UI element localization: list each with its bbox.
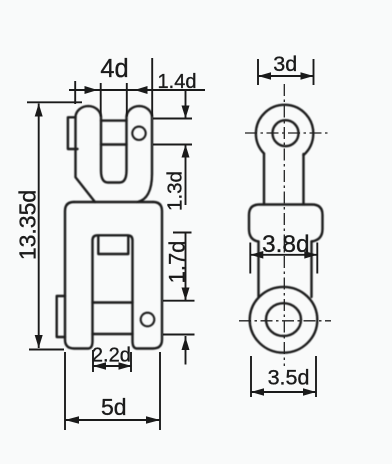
upper slot line B: [101, 143, 127, 145]
upper clevis body outline: [76, 106, 153, 202]
3.8d right arrow: [304, 251, 317, 259]
svg-text:13.35d: 13.35d: [15, 190, 41, 260]
dim shaft 1.7d upper: [185, 233, 187, 301]
3.5d ext left: [250, 356, 252, 397]
1.4d down arrow: [182, 106, 190, 119]
2.2d line: [93, 365, 132, 367]
shank right: [302, 154, 304, 205]
svg-text:1.4d: 1.4d: [158, 71, 197, 93]
dim 4d/1.4d horizontal line: [69, 89, 205, 91]
3d line: [258, 75, 314, 77]
2.2d left arrow: [93, 362, 106, 370]
lower slot line B: [93, 333, 133, 335]
svg-text:1.3d: 1.3d: [164, 171, 187, 211]
bottom eye horizontal centerline: [239, 320, 331, 322]
3d left arrow: [258, 72, 271, 80]
2.2d right arrow: [119, 362, 132, 370]
1.7d up arrow: [182, 337, 190, 350]
top eye outer: [256, 105, 313, 155]
dim shaft 1.4d: [185, 90, 187, 119]
3.8d ext left: [249, 243, 251, 274]
ref tick y144: [153, 144, 192, 146]
13.35d top ref: [27, 101, 82, 103]
lower slot line A: [93, 301, 133, 303]
swivel nut body: [249, 205, 323, 242]
13.35d up arrow: [35, 104, 43, 117]
3.8d left arrow: [250, 251, 263, 259]
lower keeper tab: [57, 296, 65, 337]
svg-text:5d: 5d: [101, 394, 127, 420]
bottom eye outer: [250, 287, 318, 353]
3.5d left arrow: [251, 388, 264, 396]
stem right: [310, 242, 312, 298]
svg-text:4d: 4d: [100, 55, 128, 83]
3.5d line: [251, 391, 316, 393]
shank left: [263, 154, 265, 205]
upper ear hole: [132, 127, 145, 140]
1.3d up arrow: [182, 145, 190, 158]
pin head rect in lower slot: [98, 236, 128, 254]
5d left arrow: [65, 416, 79, 424]
3.5d right arrow: [303, 388, 316, 396]
svg-text:2.2d: 2.2d: [92, 345, 131, 367]
3d ext left: [257, 59, 259, 85]
lower clevis body outline: [65, 202, 162, 349]
ext line x152: [151, 58, 153, 117]
svg-text:3.8d: 3.8d: [262, 231, 310, 258]
3.5d ext right: [315, 356, 317, 397]
bottom eye hole: [266, 303, 301, 336]
svg-text:3d: 3d: [273, 52, 297, 76]
ref tick y334: [163, 334, 195, 336]
5d line: [65, 419, 160, 421]
13.35d down arrow: [35, 335, 43, 348]
dim shaft 1.3d: [185, 145, 187, 206]
seam line: [74, 201, 153, 203]
lower leg hole: [141, 313, 155, 327]
13.35d bottom ref: [29, 349, 64, 351]
5d right arrow: [146, 416, 160, 424]
ref tick y232: [173, 232, 192, 234]
ext line x100: [100, 83, 102, 117]
1.7d down arrow: [182, 288, 190, 301]
3d right arrow: [301, 72, 314, 80]
svg-text:3.5d: 3.5d: [268, 366, 310, 390]
svg-text:1.7d: 1.7d: [165, 241, 190, 284]
2.2d ext right: [130, 352, 132, 372]
dim shaft 1.7d lower: [185, 336, 187, 365]
3d ext right: [313, 59, 315, 85]
upper keeper tab: [68, 117, 78, 149]
3.8d ext right: [316, 243, 318, 274]
upper slot line A: [101, 119, 127, 121]
stem left: [257, 242, 259, 298]
3.8d line: [250, 254, 317, 256]
ext line x75: [74, 81, 76, 104]
top eye hole: [273, 120, 299, 146]
vertical centerline: [283, 84, 285, 366]
4d arrow right-pointing: [85, 86, 98, 94]
ref tick y300: [163, 300, 195, 302]
ext line x127: [126, 83, 128, 117]
ref tick y118: [153, 118, 192, 120]
top eye horizontal centerline: [245, 132, 330, 134]
5d ext left: [64, 352, 66, 430]
13.35d shaft: [38, 104, 40, 349]
5d ext right: [159, 352, 161, 430]
4d arrow left-pointing: [135, 86, 148, 94]
2.2d ext left: [92, 350, 94, 372]
